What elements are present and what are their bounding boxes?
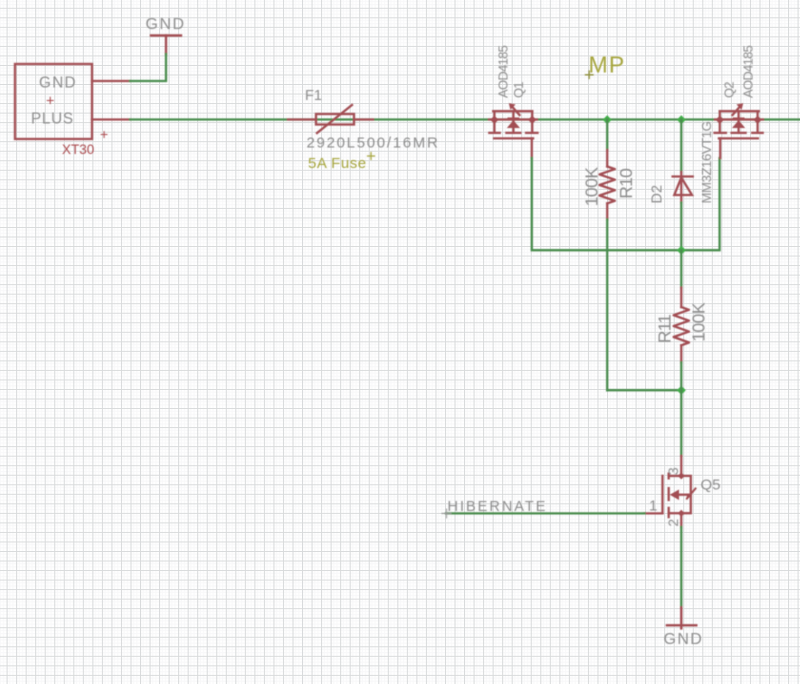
pin PLUS of XT30 <box>92 118 130 120</box>
svg-text:AOD4185: AOD4185 <box>741 45 756 98</box>
svg-text:D2: D2 <box>650 185 666 204</box>
svg-text:+: + <box>46 94 54 110</box>
XT30 connector box <box>15 64 130 139</box>
svg-text:GND: GND <box>39 75 77 92</box>
HIBERNATE label origin cross <box>442 509 451 518</box>
svg-text:Q5: Q5 <box>701 477 721 494</box>
svg-text:R10: R10 <box>616 168 636 199</box>
wire HIBERNATE <box>446 512 645 514</box>
wire R10 to node <box>607 389 681 391</box>
svg-text:AOD4185: AOD4185 <box>496 45 511 98</box>
svg-text:MM3Z16VT1G: MM3Z16VT1G <box>699 121 714 203</box>
svg-text:XT30: XT30 <box>62 142 94 157</box>
resistor R10 <box>606 120 608 151</box>
ground symbol GND (bottom) <box>667 607 696 628</box>
svg-text:1: 1 <box>649 498 657 515</box>
pin GND of XT30 <box>92 80 130 82</box>
gate net wire <box>532 158 720 250</box>
svg-text:3: 3 <box>665 467 681 475</box>
svg-text:HIBERNATE: HIBERNATE <box>448 499 548 515</box>
svg-text:GND: GND <box>146 16 186 33</box>
wire node to Q5 drain <box>680 390 682 456</box>
svg-text:2: 2 <box>665 519 681 527</box>
ground symbol GND (top) <box>151 36 181 55</box>
wire GND net <box>130 54 166 81</box>
pmos Q2 (mirrored copy of Q1) <box>715 103 764 158</box>
svg-text:R11: R11 <box>655 315 675 344</box>
zener D2 <box>680 120 682 173</box>
svg-text:100K: 100K <box>689 302 709 342</box>
MP label origin cross <box>586 71 594 79</box>
nmos Q5 <box>645 456 696 527</box>
svg-text:+: + <box>100 126 108 142</box>
wire PLUS rail <box>130 118 800 120</box>
svg-text:2920L500/16MR: 2920L500/16MR <box>307 135 440 152</box>
resistor R11 <box>680 250 682 287</box>
svg-text:100K: 100K <box>582 167 602 207</box>
F1 label origin cross <box>368 153 375 160</box>
pmos Q1 <box>489 107 538 159</box>
fuse F1 <box>288 105 373 133</box>
svg-text:PLUS: PLUS <box>31 111 74 128</box>
svg-text:F1: F1 <box>305 88 322 104</box>
junction node rail/D2 <box>677 115 686 124</box>
svg-text:MP: MP <box>589 52 626 78</box>
svg-text:GND: GND <box>664 631 704 648</box>
junction dot R11 bottom <box>677 386 686 395</box>
junction dot R11 top <box>677 246 686 255</box>
svg-text:Q1: Q1 <box>511 82 526 98</box>
junction node rail/R10 <box>603 115 612 124</box>
svg-text:Q2: Q2 <box>722 82 737 98</box>
svg-text:5A Fuse: 5A Fuse <box>308 155 367 172</box>
wire Q5 source to GND <box>680 527 682 607</box>
